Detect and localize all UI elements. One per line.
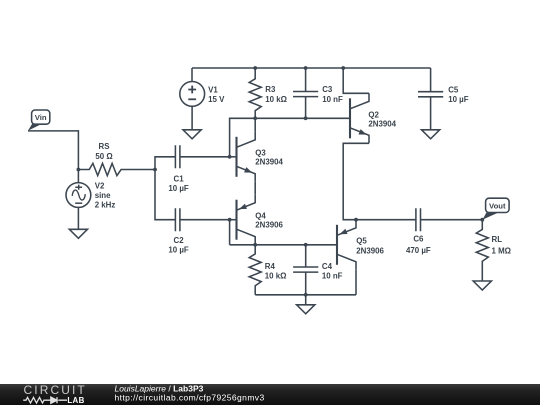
wire output node to C6 — [356, 219, 416, 221]
svg-text:10 nF: 10 nF — [322, 271, 343, 280]
net flag Vin — [28, 110, 50, 131]
transistor Q2 2N3904 — [350, 93, 369, 143]
source V1 15V — [180, 82, 205, 107]
footer bar — [0, 383, 540, 405]
resistor RL 1Mohm — [476, 220, 488, 281]
wire V1 top stem — [191, 68, 193, 82]
svg-text:Vin: Vin — [35, 113, 47, 122]
svg-text:10 µF: 10 µF — [168, 246, 189, 255]
transistor Q5 2N3906 — [337, 220, 356, 270]
svg-text:10 kΩ: 10 kΩ — [265, 95, 287, 104]
ground (mid) — [297, 295, 315, 314]
svg-text:C2: C2 — [174, 236, 185, 245]
capacitor C2 — [155, 170, 230, 232]
ground (V1) — [183, 130, 201, 139]
net flag Vout — [483, 198, 510, 219]
svg-text:Q5: Q5 — [356, 236, 367, 245]
wire rail R3-C3-Q2 base — [230, 118, 350, 157]
svg-text:C1: C1 — [174, 175, 185, 184]
wire C6 to Vout node — [421, 219, 483, 221]
svg-text:LAB: LAB — [67, 396, 84, 405]
svg-text:C6: C6 — [413, 235, 424, 244]
svg-text:470 µF: 470 µF — [406, 246, 431, 255]
wire Q2 emitter to output node — [343, 143, 369, 219]
svg-text:10 kΩ: 10 kΩ — [265, 271, 287, 280]
svg-text:RS: RS — [99, 142, 110, 151]
svg-text:R4: R4 — [265, 262, 276, 271]
capacitor C3 — [293, 68, 318, 118]
logo resistor-diode squiggle — [23, 397, 67, 403]
transistor Q4 2N3906 — [237, 195, 256, 245]
svg-text:sine: sine — [95, 191, 111, 200]
svg-text:Q4: Q4 — [255, 211, 266, 220]
wire Q2 collector to rail — [343, 68, 369, 93]
svg-text:2N3906: 2N3906 — [255, 221, 283, 230]
svg-text:R3: R3 — [265, 85, 276, 94]
svg-text:C3: C3 — [322, 85, 333, 94]
resistor R3 — [249, 68, 261, 118]
svg-text:C5: C5 — [448, 85, 459, 94]
svg-text:V1: V1 — [208, 85, 218, 94]
transistor Q3 2N3904 — [237, 132, 256, 182]
capacitor C4 — [293, 245, 318, 295]
wire Q3 emitter to Q4 emitter — [254, 182, 256, 195]
wire top rail +15V — [192, 67, 431, 69]
svg-text:Q3: Q3 — [255, 148, 266, 157]
resistor RS 50ohm — [78, 163, 155, 175]
wire lower ground rail — [255, 294, 356, 296]
source V2 sine — [66, 170, 91, 230]
svg-text:C4: C4 — [322, 262, 333, 271]
wire Q3 base stub — [230, 156, 237, 158]
wire base node to lower rail — [229, 220, 231, 245]
svg-text:2N3904: 2N3904 — [255, 158, 283, 167]
svg-text:http://circuitlab.com/cfp79256: http://circuitlab.com/cfp79256gnmv3 — [115, 392, 265, 402]
svg-text:50 Ω: 50 Ω — [95, 152, 112, 161]
svg-text:RL: RL — [492, 235, 503, 244]
resistor R4 — [249, 245, 261, 295]
svg-text:10 nF: 10 nF — [322, 95, 343, 104]
svg-text:2N3904: 2N3904 — [368, 120, 396, 129]
svg-text:2 kHz: 2 kHz — [95, 201, 116, 210]
wire Vin to V2/RS node — [28, 131, 78, 170]
wire Q3 collector to rail — [254, 118, 256, 132]
logo diode — [51, 397, 57, 403]
ground (C5) — [422, 130, 440, 139]
wire V1 bottom stem — [191, 106, 193, 130]
svg-text:1 MΩ: 1 MΩ — [492, 246, 511, 255]
svg-text:15 V: 15 V — [208, 95, 225, 104]
svg-text:10 µF: 10 µF — [168, 184, 189, 193]
wire Q5 collector to ground rail — [355, 270, 357, 295]
wire Q4 base stub — [230, 219, 237, 221]
ground (RL) — [473, 281, 491, 290]
svg-text:V2: V2 — [95, 182, 105, 191]
svg-text:2N3906: 2N3906 — [356, 246, 384, 255]
capacitor C6 — [416, 208, 421, 231]
svg-text:Q2: Q2 — [368, 110, 379, 119]
svg-text:Vout: Vout — [489, 201, 506, 210]
ground (V2) — [69, 229, 87, 238]
capacitor C5 — [418, 68, 443, 130]
svg-text:CIRCUIT: CIRCUIT — [24, 383, 87, 397]
capacitor C1 — [155, 145, 230, 169]
svg-text:10 µF: 10 µF — [448, 95, 469, 104]
wire rail R4-C4-Q5 base — [230, 244, 337, 246]
